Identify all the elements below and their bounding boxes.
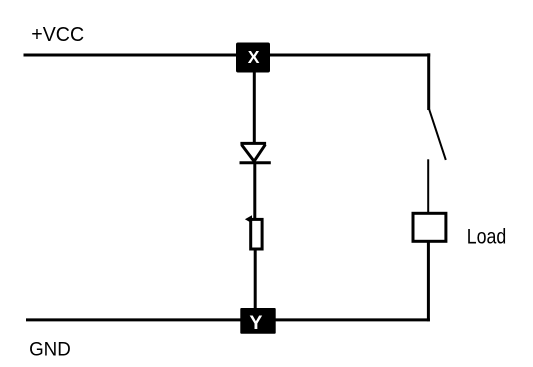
wire load to bottom rail: [427, 241, 430, 321]
resistor R1 arrowhead: [245, 215, 252, 223]
svg-text:GND: GND: [29, 340, 71, 361]
switch SW1 open blade: [429, 109, 446, 160]
svg-text:Load: Load: [467, 225, 507, 248]
svg-text:+VCC: +VCC: [31, 24, 84, 46]
wire diode cathode to resistor: [253, 163, 256, 219]
load resistor box: [413, 213, 446, 241]
wire switch lower contact to load: [427, 159, 429, 213]
diode D1 cathode bar: [240, 161, 271, 164]
wire resistor to node Y: [254, 248, 257, 309]
wire bottom GND rail: [26, 318, 430, 321]
node X terminal box: [236, 43, 270, 73]
svg-text:Y: Y: [249, 312, 262, 334]
svg-text:X: X: [248, 47, 260, 67]
diode D1 triangle sides: [242, 145, 266, 162]
node Y terminal box: [240, 308, 275, 334]
wire node X to diode anode: [253, 72, 256, 143]
diode D1 anode base bar: [240, 142, 266, 145]
wire top +VCC rail: [24, 54, 431, 57]
wire right branch vertical (top): [427, 53, 430, 110]
resistor R1 box: [251, 219, 262, 249]
